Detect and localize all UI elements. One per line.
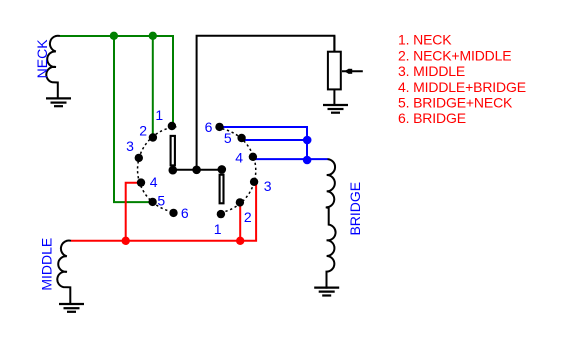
svg-text:1. NECK: 1. NECK (398, 32, 452, 48)
svg-text:NECK: NECK (34, 39, 50, 79)
wire black: pole A common to pole B common (173, 169, 222, 171)
contact B4 (249, 153, 257, 161)
wire red: branch to contact B2 (239, 202, 241, 240)
svg-text:5: 5 (157, 193, 165, 209)
common node pole B (218, 165, 227, 174)
common node pole A (169, 166, 178, 175)
svg-text:4: 4 (235, 149, 243, 165)
contact A1 (168, 122, 176, 130)
ground (bridge pickup) (314, 288, 339, 296)
contact A3 (135, 154, 143, 162)
wire red: branch to contact A4 (126, 183, 141, 241)
contact B2 (236, 198, 244, 206)
wire black: switch common to pot (197, 36, 335, 170)
svg-text:6: 6 (181, 205, 189, 221)
svg-text:1: 1 (214, 221, 222, 237)
svg-text:4: 4 (150, 174, 158, 190)
wiper (pole A) (171, 136, 175, 166)
svg-text:MIDDLE: MIDDLE (39, 238, 55, 291)
svg-text:3: 3 (264, 178, 272, 194)
contact A4 (137, 178, 145, 186)
svg-text:3. MIDDLE: 3. MIDDLE (398, 63, 465, 79)
junction (green) (110, 32, 118, 40)
svg-text:2: 2 (244, 209, 252, 225)
svg-text:BRIDGE: BRIDGE (347, 182, 363, 236)
pot wiper arrow (344, 69, 349, 75)
svg-text:5. BRIDGE+NECK: 5. BRIDGE+NECK (398, 95, 513, 111)
contact A6 (169, 209, 177, 217)
svg-text:2. NECK+MIDDLE: 2. NECK+MIDDLE (398, 47, 511, 63)
wire green: neck coil to contact A1 (60, 36, 173, 126)
wire red: middle coil to contact B3 (71, 184, 256, 241)
svg-text:6: 6 (205, 119, 213, 135)
rotary switch SW1 pole B dashed arc (217, 128, 256, 213)
svg-text:6. BRIDGE: 6. BRIDGE (398, 110, 466, 126)
junction (black) (192, 166, 201, 175)
contact B3 (250, 178, 258, 186)
potentiometer R1 volume (328, 36, 363, 106)
contact B5 (237, 134, 245, 142)
inductor L2 MIDDLE pickup coil (57, 241, 71, 305)
svg-text:2: 2 (139, 123, 147, 139)
svg-text:5: 5 (224, 130, 232, 146)
contact A2 (149, 133, 157, 141)
rotary switch SW1 pole A dashed arc (138, 127, 177, 213)
junction (blue) (303, 156, 312, 165)
ground (pot) (323, 105, 348, 113)
wire green: branch to contact A2 (152, 36, 154, 138)
svg-text:4. MIDDLE+BRIDGE: 4. MIDDLE+BRIDGE (398, 79, 526, 95)
ground (middle pickup) (59, 304, 84, 312)
wire blue: contact B5 to bus (242, 139, 307, 141)
wire blue: contact B6 to bus (220, 127, 308, 160)
inductor L1 NECK pickup coil (46, 36, 60, 99)
contact B6 (215, 123, 223, 131)
junction (red) (236, 237, 244, 245)
junction (green) (149, 32, 157, 40)
wire green: branch to contact A5 (114, 36, 153, 202)
contact B1 (217, 210, 225, 218)
junction (blue) (303, 136, 312, 145)
svg-text:1: 1 (155, 107, 163, 123)
junction (red) (122, 237, 130, 245)
wiper (pole B) (220, 175, 224, 204)
contact A5 (148, 198, 156, 206)
inductor L3 BRIDGE pickup coil (326, 159, 336, 289)
ground (neck pickup) (46, 98, 71, 106)
wire blue: contact B4 to bridge coil (253, 158, 328, 160)
svg-text:3: 3 (126, 138, 134, 154)
